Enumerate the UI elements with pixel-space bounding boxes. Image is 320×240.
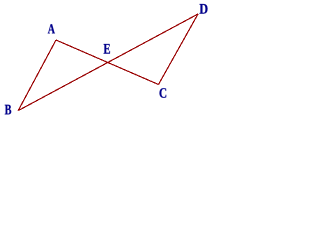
segment DC [159,14,199,85]
label D [200,4,208,14]
label E [104,44,110,54]
segment AC (through E) [56,40,159,85]
label C [159,88,166,98]
label A [48,24,55,33]
label B [5,105,11,115]
segment BD (through E) [18,14,198,111]
segment AB [18,40,56,111]
